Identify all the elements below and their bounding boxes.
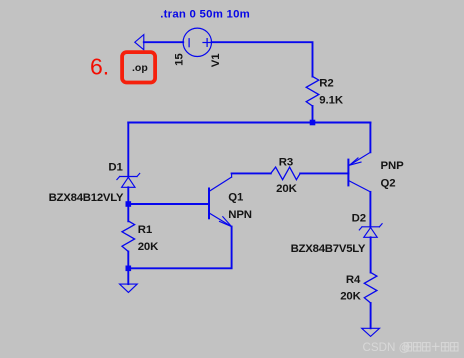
wire Q1 emitter to bottom node xyxy=(128,227,231,269)
svg-text:R1: R1 xyxy=(138,224,153,236)
svg-text:R4: R4 xyxy=(346,274,361,286)
zener diode D2 xyxy=(359,224,382,238)
wire Q2 collector to D2 xyxy=(369,192,371,227)
svg-text:R2: R2 xyxy=(319,77,333,89)
svg-text:R3: R3 xyxy=(279,157,293,169)
svg-text:D1: D1 xyxy=(108,162,123,174)
resistor R2 xyxy=(306,77,319,107)
wire R1 to bottom node xyxy=(127,252,129,269)
svg-text:CSDN @: CSDN @ xyxy=(363,341,411,354)
resistor R3 xyxy=(271,167,300,180)
wire rail to Q2 emitter xyxy=(369,123,371,153)
wire base of Q1 from node xyxy=(128,203,209,205)
svg-text:V1: V1 xyxy=(210,53,222,67)
svg-text:6.: 6. xyxy=(90,54,109,80)
wire R3 to Q2 base xyxy=(300,172,348,174)
svg-text:BZX84B7V5LY: BZX84B7V5LY xyxy=(291,243,366,255)
wire D1 to node xyxy=(127,187,129,204)
svg-text:Q2: Q2 xyxy=(381,177,396,189)
resistor R4 xyxy=(364,273,377,304)
svg-text:D2: D2 xyxy=(352,213,366,225)
resistor R1 xyxy=(122,221,135,252)
svg-text:PNP: PNP xyxy=(381,160,405,172)
ground flag (left of V1) xyxy=(135,35,144,50)
ground (below R1) xyxy=(120,284,138,292)
wire node to R1 xyxy=(127,204,129,221)
svg-text:20K: 20K xyxy=(138,241,159,253)
wire R2 to rail junction xyxy=(312,106,314,123)
svg-text:20K: 20K xyxy=(276,183,297,195)
svg-text:NPN: NPN xyxy=(228,209,252,221)
annotation red box around .op xyxy=(122,52,155,82)
wire flag to V1 xyxy=(144,41,183,43)
svg-text:Q1: Q1 xyxy=(228,191,244,203)
wire Q1 collector to R3 xyxy=(232,172,271,174)
svg-text:9.1K: 9.1K xyxy=(319,94,344,106)
zener diode D1 xyxy=(117,173,140,187)
ground (below R4) xyxy=(362,328,380,336)
transistor Q1 xyxy=(209,173,232,226)
transistor Q2 xyxy=(348,152,370,192)
svg-text:BZX84B12VLY: BZX84B12VLY xyxy=(49,192,124,204)
node R1/ground/emitter junction xyxy=(126,266,132,272)
wire V1 to top-right corner xyxy=(212,42,313,76)
wire top rail xyxy=(128,122,370,124)
wire rail to D1 xyxy=(127,123,129,177)
voltage source V1 xyxy=(183,28,211,56)
wire R4 to ground xyxy=(370,303,372,328)
svg-text:15: 15 xyxy=(173,53,185,66)
wire node to ground xyxy=(127,268,129,284)
svg-text:.op: .op xyxy=(132,62,148,74)
junction rail/R2 xyxy=(310,120,316,126)
node D1/R1/Q1-base junction xyxy=(126,201,132,207)
svg-text:.tran 0 50m 10m: .tran 0 50m 10m xyxy=(160,9,250,21)
svg-text:20K: 20K xyxy=(340,291,361,303)
wire D2 to R4 xyxy=(370,237,372,272)
watermark CSDN xyxy=(363,341,459,354)
